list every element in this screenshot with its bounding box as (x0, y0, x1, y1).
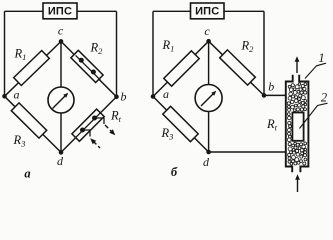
leader line to label 2 (300, 103, 328, 128)
granule texture inside tube (287, 83, 307, 165)
node d (left circuit) (59, 150, 64, 155)
Rt dashed arrow in (left circuit) (90, 138, 96, 144)
power supply box IPS (right circuit) (191, 3, 225, 19)
wire: galvanometer diagonal c-d (60, 41, 62, 87)
node b (right circuit) (262, 93, 267, 98)
leader line to label 1 (305, 63, 326, 78)
Rt wire through with taps (left circuit) (76, 113, 101, 138)
sensor tube body 1 (granule-filled chamber, open neck top and bottom) (286, 75, 293, 172)
R2 slider taps and wire through (left circuit) (76, 55, 101, 80)
svg-text:c: c (204, 24, 210, 38)
resistor R1 (right circuit) (164, 51, 199, 86)
svg-text:a: a (163, 87, 169, 101)
resistor R2 slidewire (left circuit) (71, 50, 103, 82)
node a (left circuit) (2, 94, 7, 99)
wire: galvanometer diagonal c-d (right) (208, 41, 210, 85)
wire: arm c-b (61, 41, 117, 96)
svg-text:a: a (14, 88, 20, 102)
Rt tap lead 1 (left circuit) (95, 118, 105, 124)
sensing element 2 (Rt inside tube) (292, 113, 303, 141)
svg-text:d: d (57, 154, 64, 168)
galvanometer (right circuit) (195, 85, 222, 112)
wire: right supply wire (IPS box to b, right circuit) (224, 10, 264, 12)
svg-text:b: b (268, 80, 274, 94)
svg-text:d: d (203, 155, 210, 169)
resistor R1 (left circuit) (14, 51, 50, 86)
wire: arm b-d (61, 97, 117, 153)
wire: arm a-d (5, 96, 62, 152)
wire: arm c-b (right) (209, 41, 264, 95)
wire: b to sensor tube (right) (264, 94, 286, 96)
gas flow arrow bottom (297, 179, 299, 193)
resistor Rt thermal sensor (left circuit) (72, 109, 104, 141)
node c (left circuit) (59, 39, 64, 44)
node d (right circuit) (206, 150, 211, 155)
wire: arm a-c (right) (153, 41, 209, 96)
Rt tap lead 2 (left circuit) (83, 130, 91, 137)
node c (right circuit) (206, 39, 211, 44)
node a (right circuit) (151, 94, 156, 99)
resistor R2 (right circuit) (220, 50, 256, 85)
svg-text:ИПС: ИПС (195, 6, 219, 18)
svg-text:а: а (24, 167, 30, 181)
wire: left supply wire (a to IPS box, left circuit) (5, 10, 44, 12)
svg-text:2: 2 (321, 91, 327, 105)
power supply box IPS (left circuit) (43, 3, 77, 19)
wire: left supply wire (a to IPS box, right circuit) (153, 10, 191, 12)
svg-text:1: 1 (318, 51, 324, 65)
gas flow arrow top (296, 61, 298, 74)
svg-text:b: b (121, 90, 127, 104)
wire: d to sensor tube (right) (209, 151, 286, 153)
resistor R3 (left circuit) (11, 103, 46, 138)
wire: arm a-c (5, 41, 62, 96)
wire: right supply wire (IPS box to b, left circuit) (77, 10, 117, 12)
node b (left circuit) (114, 95, 119, 100)
galvanometer (left circuit) (48, 87, 74, 113)
wire: arm a-d (right) (153, 97, 209, 153)
Rt dashed arrow out (left circuit) (105, 125, 112, 132)
svg-text:ИПС: ИПС (48, 6, 72, 18)
svg-text:б: б (171, 165, 178, 179)
svg-text:c: c (58, 24, 64, 38)
resistor R3 (right circuit) (163, 106, 198, 141)
